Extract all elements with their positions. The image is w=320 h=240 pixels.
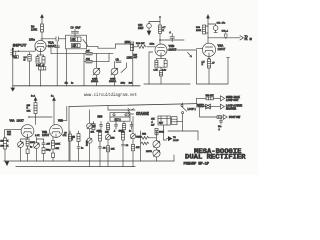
label 220p above bus bbox=[121, 83, 133, 85]
svg-text:LOOP: LOOP bbox=[173, 140, 179, 142]
wire bus jog mid bbox=[108, 106, 135, 110]
wire loop to divider bbox=[87, 46, 99, 48]
wire foot sw row bbox=[200, 108, 217, 117]
resistor R5 1.5K cathode bbox=[36, 55, 44, 63]
capacitor C74 bbox=[99, 147, 107, 167]
svg-text:V3A: V3A bbox=[10, 119, 15, 123]
ground bus bottom bbox=[4, 160, 174, 162]
resistor R58 drop bbox=[105, 122, 110, 134]
capacitor C1 bypass bbox=[38, 57, 46, 67]
capacitor C73 bbox=[77, 147, 84, 161]
svg-text:TO: TO bbox=[173, 137, 176, 139]
label V3B bbox=[58, 118, 63, 122]
svg-text:V1B: V1B bbox=[169, 44, 176, 48]
node B+2 junction bbox=[159, 16, 161, 25]
label R4 100K bbox=[31, 24, 37, 31]
wire V3A cathode down bbox=[27, 137, 29, 139]
svg-text:MID: MID bbox=[111, 137, 115, 139]
pot P5 bbox=[18, 139, 28, 161]
capacitor C4 drop bbox=[55, 41, 59, 86]
svg-text:500p: 500p bbox=[46, 150, 51, 152]
label R30 100K bbox=[196, 27, 202, 32]
title PREAMP NF-1P bbox=[184, 163, 210, 167]
svg-text:R23 68K: R23 68K bbox=[136, 43, 145, 45]
svg-text:K: K bbox=[7, 145, 9, 147]
resistor R24 cathode V1B bbox=[155, 59, 166, 68]
resistor R78 top bbox=[155, 128, 164, 134]
svg-text:3M3: 3M3 bbox=[142, 134, 147, 136]
label P2 GAIN 250K bbox=[109, 77, 117, 83]
svg-text:1n: 1n bbox=[71, 83, 74, 85]
label 1.5K 2.2uF bbox=[154, 70, 167, 72]
capacitor C7 small bbox=[116, 59, 122, 62]
label LOOP ACTIVE MASTER bbox=[226, 104, 242, 110]
svg-text:.47: .47 bbox=[212, 62, 216, 64]
tube V1A triode bbox=[35, 40, 46, 51]
label 47n above bus bbox=[65, 83, 75, 85]
label C8 .1 bbox=[64, 132, 75, 138]
wire V1B bottom rail bbox=[144, 83, 190, 85]
svg-text:DUAL RECTIFIER: DUAL RECTIFIER bbox=[185, 153, 246, 160]
svg-text:RLY A: RLY A bbox=[115, 118, 122, 121]
pot P6 bbox=[34, 137, 40, 161]
wire V3A grid to left rail bbox=[5, 130, 22, 138]
node B+3 arrow V2A bbox=[207, 15, 210, 43]
wire B+ feed right bbox=[208, 37, 238, 39]
resistor R8 in loop bbox=[72, 43, 81, 47]
pot P8 mid bbox=[105, 129, 110, 167]
svg-text:.02: .02 bbox=[103, 147, 107, 149]
wire bus drop left bbox=[68, 107, 70, 162]
label C3 47uF bbox=[71, 27, 81, 30]
svg-text:K: K bbox=[27, 108, 29, 110]
svg-text:47n: 47n bbox=[65, 83, 69, 85]
svg-text:INPUT: INPUT bbox=[13, 42, 27, 47]
svg-text:C8: C8 bbox=[64, 132, 68, 134]
capacitor C31 47uF bbox=[208, 24, 218, 33]
pot P10 master bbox=[153, 141, 160, 150]
capacitor C21 cathode V1B bbox=[156, 60, 167, 70]
tube V3B triode bbox=[50, 125, 63, 138]
ground bus second bbox=[16, 166, 135, 168]
resistor R22 stack bbox=[159, 25, 167, 33]
svg-text:10n: 10n bbox=[218, 126, 222, 128]
wire B+1 to V1A plate bbox=[41, 18, 43, 41]
label SEND JACK LOOP OUT bbox=[226, 96, 240, 102]
wire V3B anode to bus bbox=[62, 106, 67, 120]
svg-text:ORANGE: ORANGE bbox=[136, 111, 149, 116]
relay box K2 bbox=[158, 116, 170, 125]
arrow TO power amp bbox=[238, 36, 252, 42]
component X2 right of relay bbox=[172, 117, 177, 125]
label C31 47uF bbox=[217, 22, 226, 24]
title MESA-BOOGIE bbox=[194, 148, 242, 155]
pot P11 presence bbox=[153, 150, 160, 161]
svg-text:www.circuitdiagram.net: www.circuitdiagram.net bbox=[84, 93, 137, 98]
resistor R71 left stack bbox=[4, 137, 7, 161]
wire V1B cathode bbox=[160, 56, 162, 59]
label 1.5K .47 bbox=[36, 65, 45, 67]
capacitor C51 drop bbox=[114, 122, 118, 133]
capacitor C32 .1 on feed bbox=[222, 30, 229, 36]
svg-text:12AX7: 12AX7 bbox=[169, 47, 177, 51]
svg-text:FOOT SW: FOOT SW bbox=[229, 116, 241, 119]
watermark www.circuitdiagram.net bbox=[84, 93, 137, 98]
wire drop x140 bbox=[140, 131, 142, 161]
svg-text:C32 .1: C32 .1 bbox=[222, 30, 229, 32]
label 1.5K V2A bbox=[202, 61, 216, 66]
svg-text:150n: 150n bbox=[29, 38, 35, 42]
node B+4 arrow bbox=[31, 95, 37, 101]
svg-text:C3: C3 bbox=[71, 27, 75, 30]
svg-text:220p: 220p bbox=[121, 83, 126, 85]
svg-text:82K: 82K bbox=[7, 134, 11, 136]
svg-text:100K: 100K bbox=[31, 27, 37, 31]
wire jack sleeve to ground bbox=[12, 56, 14, 85]
wire V1A cathode down bbox=[40, 52, 42, 55]
svg-text:MSTR: MSTR bbox=[146, 151, 152, 153]
ground arrow bottom left bbox=[5, 162, 9, 166]
svg-text:LOOP OUT: LOOP OUT bbox=[226, 99, 239, 102]
wire L return top right bbox=[168, 131, 198, 140]
svg-text:47uF: 47uF bbox=[75, 27, 81, 30]
svg-text:1n: 1n bbox=[129, 131, 132, 133]
label V2A 12AX7 bbox=[218, 44, 226, 51]
svg-text:150K: 150K bbox=[125, 41, 131, 44]
resistor R2 1M grid leak bbox=[14, 51, 19, 59]
capacitor C23 .1 bbox=[169, 32, 174, 42]
label 100K 1n bbox=[30, 142, 35, 149]
label TREB bbox=[136, 136, 142, 149]
svg-text:.1: .1 bbox=[218, 129, 221, 131]
wire divider down bbox=[132, 44, 134, 86]
svg-text:10K: 10K bbox=[111, 148, 115, 150]
input jack J1 bbox=[11, 48, 14, 57]
tube V2A triode bbox=[202, 43, 215, 56]
svg-text:.1: .1 bbox=[114, 131, 117, 133]
svg-text:.1: .1 bbox=[151, 121, 154, 123]
wire V1A plate to loop bbox=[42, 38, 66, 40]
svg-text:12AX7: 12AX7 bbox=[17, 120, 25, 123]
pot P2 gain red bbox=[111, 62, 118, 86]
label C71 bbox=[63, 135, 68, 137]
svg-text:100: 100 bbox=[27, 105, 31, 107]
svg-text:PA: PA bbox=[245, 38, 248, 41]
svg-text:1.5K: 1.5K bbox=[154, 70, 159, 72]
wire step network bbox=[98, 44, 133, 48]
pot P3 small bbox=[87, 110, 93, 134]
svg-text:K: K bbox=[72, 139, 74, 141]
wire branch to C22 bbox=[149, 22, 160, 24]
svg-text:250K A: 250K A bbox=[91, 80, 99, 83]
svg-text:R30: R30 bbox=[196, 27, 201, 29]
label C22 10uF bbox=[138, 24, 144, 30]
wire send row bbox=[196, 98, 219, 103]
svg-text:MASTER: MASTER bbox=[226, 108, 236, 111]
resistor R73 stack right bbox=[52, 137, 55, 161]
wire B+5 to V3B plate bbox=[53, 101, 55, 125]
resistor R57 drop bbox=[91, 122, 96, 134]
svg-text:82K: 82K bbox=[27, 110, 31, 112]
resistor R76 250K bbox=[119, 130, 125, 144]
svg-text:12AX7: 12AX7 bbox=[218, 47, 226, 51]
label 220K 100K bbox=[0, 140, 9, 147]
arrow to FX bbox=[167, 137, 172, 141]
svg-text:22K: 22K bbox=[97, 131, 101, 133]
resistor R75 22K bbox=[97, 131, 102, 146]
ground bus main bbox=[13, 85, 140, 87]
svg-text:1.5: 1.5 bbox=[202, 61, 206, 63]
svg-text:22K: 22K bbox=[72, 46, 77, 48]
svg-text:PREAMP NF-1P: PREAMP NF-1P bbox=[184, 163, 210, 167]
resistor R60 send bbox=[206, 95, 215, 100]
wire jack to V1A grid bbox=[18, 48, 35, 52]
svg-text:100K: 100K bbox=[55, 143, 60, 145]
label 1.5K bottom bbox=[35, 135, 40, 137]
capacitor C50 drop bbox=[99, 122, 103, 133]
label P1 GAIN 250K bbox=[91, 77, 99, 83]
label 1M bbox=[93, 126, 96, 128]
label LOOP 1 bbox=[188, 109, 197, 111]
label BASS vertical bbox=[86, 140, 89, 146]
wire lower branch to junction bbox=[92, 54, 109, 62]
svg-text:47K: 47K bbox=[55, 148, 59, 150]
wire V2A cathode bbox=[208, 56, 210, 59]
svg-text:C9: C9 bbox=[126, 145, 130, 147]
svg-text:K: K bbox=[202, 64, 204, 66]
title DUAL RECTIFIER bbox=[185, 153, 246, 160]
bus orange channel bbox=[69, 104, 196, 107]
resistor R77 zigzag bbox=[141, 136, 149, 144]
svg-text:.047: .047 bbox=[46, 144, 51, 146]
svg-text:1n: 1n bbox=[30, 147, 33, 149]
resistor R23 68K zigzag bbox=[136, 43, 155, 48]
label FOOT SW bbox=[229, 116, 241, 119]
wire x163 drop bbox=[164, 125, 167, 140]
svg-text:120K: 120K bbox=[127, 57, 133, 60]
capacitor C5 .047 top branch bbox=[86, 51, 93, 55]
svg-text:RLY: RLY bbox=[159, 122, 164, 124]
label V1A 12AX7 bbox=[48, 41, 56, 48]
wire to V1B plate bbox=[159, 33, 161, 44]
label 100K 47K bbox=[55, 143, 60, 150]
tube V1B triode bbox=[155, 44, 167, 56]
capacitor C72 stack bbox=[37, 139, 46, 161]
relay box K1 bbox=[110, 113, 130, 122]
svg-text:2n2: 2n2 bbox=[129, 83, 133, 85]
wire bus end drop bbox=[173, 155, 175, 161]
label 3.3M bbox=[24, 57, 28, 62]
svg-text:10K: 10K bbox=[91, 132, 95, 134]
svg-text:47K: 47K bbox=[151, 118, 155, 120]
capacitor C2 on plate wire bbox=[56, 37, 58, 41]
wire grid loop V2A bbox=[196, 48, 229, 84]
resistor R59 drop bbox=[121, 122, 126, 134]
svg-text:RED: RED bbox=[197, 103, 205, 108]
wire jack to grid stopper bbox=[14, 50, 24, 52]
label TO LOOP bbox=[173, 137, 179, 142]
svg-text:B+4: B+4 bbox=[31, 95, 36, 97]
svg-text:22K: 22K bbox=[105, 132, 109, 134]
wire lower branch bbox=[84, 54, 86, 86]
label R30 82K bottom bbox=[7, 132, 12, 137]
label INPUT bbox=[13, 42, 27, 47]
capacitor C20 input V1B bbox=[130, 42, 137, 51]
resistor R74 stack bbox=[77, 131, 80, 146]
wire V1B anode to V2A grid bbox=[167, 49, 196, 51]
pot P7 bass bbox=[87, 134, 92, 167]
wire top branch to junction bbox=[92, 53, 109, 55]
label V1B 12AX7 bbox=[169, 44, 177, 51]
wire junction to gain pots bbox=[109, 54, 113, 58]
svg-text:250K: 250K bbox=[119, 130, 124, 132]
label 47K .1 stack bbox=[151, 118, 155, 126]
svg-text:47u: 47u bbox=[222, 22, 226, 24]
label 3M3 bbox=[142, 134, 147, 136]
switch lever S2 bbox=[188, 52, 192, 57]
capacitor C54 foot bbox=[218, 119, 222, 131]
resistor R72 stack bbox=[26, 139, 29, 161]
wire branch right y40 bbox=[160, 39, 184, 41]
svg-text:V2A: V2A bbox=[218, 44, 225, 48]
wire drop x70 components bbox=[69, 131, 72, 161]
pot P1 gain orange bbox=[93, 54, 100, 86]
svg-text:1M: 1M bbox=[14, 57, 17, 59]
wire pot wiper diagonal bbox=[121, 63, 127, 73]
svg-text:100K: 100K bbox=[196, 30, 202, 32]
label MASTER bbox=[146, 151, 152, 153]
wire pots feed bbox=[149, 131, 157, 141]
svg-text:250K A: 250K A bbox=[109, 80, 117, 83]
capacitor C3 bbox=[72, 29, 79, 35]
label V3A 12AX7 bbox=[10, 119, 25, 123]
node B+5 arrow bbox=[51, 95, 55, 101]
switch lever top mid bbox=[83, 40, 88, 46]
label ORANGE bbox=[136, 111, 149, 116]
svg-text:1n: 1n bbox=[81, 148, 84, 150]
arrow foot sw bbox=[222, 115, 228, 120]
resistor R3 node stack bbox=[28, 53, 31, 87]
svg-text:C71: C71 bbox=[63, 135, 68, 137]
svg-text:M: M bbox=[24, 60, 26, 62]
svg-text:K: K bbox=[7, 140, 9, 142]
resistor R7 in loop bbox=[71, 37, 82, 42]
svg-text:1.5K: 1.5K bbox=[35, 135, 40, 137]
svg-text:100n: 100n bbox=[150, 43, 156, 45]
svg-text:(.1): (.1) bbox=[116, 59, 120, 61]
resistor R61 foot bbox=[217, 116, 222, 119]
svg-text:10uF: 10uF bbox=[138, 27, 144, 30]
wire V1A anode coupling row bbox=[46, 46, 86, 54]
wire grid tie row3 bbox=[28, 116, 52, 118]
svg-text:GAIN: GAIN bbox=[110, 77, 116, 80]
svg-text:.047: .047 bbox=[133, 57, 138, 59]
pot P4 bracket bbox=[128, 109, 134, 117]
ground arrow symbol bbox=[11, 86, 15, 91]
label .047 bbox=[46, 144, 51, 152]
svg-text:4n7: 4n7 bbox=[151, 124, 155, 126]
wire orange bracket to treble bbox=[132, 116, 134, 131]
svg-text:4.7: 4.7 bbox=[162, 27, 166, 29]
capacitor C6 .022 lower branch bbox=[86, 59, 93, 63]
node B+1 arrow bbox=[41, 15, 44, 19]
capacitor C75 bbox=[122, 144, 129, 166]
arrow send jack bbox=[219, 96, 225, 101]
label node 150v bbox=[29, 38, 42, 42]
resistor R31 cathode stack bbox=[207, 59, 210, 84]
svg-text:GAIN: GAIN bbox=[92, 77, 98, 80]
resistor R30 stack V2A plate bbox=[203, 25, 208, 34]
svg-text:R60 47K: R60 47K bbox=[206, 95, 215, 97]
svg-text:47K: 47K bbox=[136, 147, 140, 149]
svg-text:R56: R56 bbox=[98, 115, 103, 119]
wire left drop x149 bbox=[149, 52, 153, 84]
diode D1 pair bbox=[204, 104, 221, 109]
wire decoupling loop bbox=[66, 35, 87, 86]
switch S3 channel bbox=[181, 103, 187, 117]
resistor R40 stack below arrow bbox=[34, 101, 37, 125]
arrow loop active bbox=[220, 104, 224, 109]
capacitor C52 drop bbox=[129, 122, 133, 133]
svg-text:.1: .1 bbox=[169, 32, 172, 34]
label 100n bbox=[150, 43, 156, 45]
pot P9 treble bbox=[130, 131, 135, 167]
svg-text:V1A: V1A bbox=[48, 41, 55, 45]
label V3B 12AX7 mid bbox=[42, 130, 50, 137]
svg-text:TO: TO bbox=[245, 36, 248, 38]
svg-text:LOOP 1: LOOP 1 bbox=[188, 109, 197, 111]
label B56 bbox=[98, 115, 103, 119]
label 120K lower bbox=[127, 57, 133, 60]
svg-text:K: K bbox=[162, 30, 164, 32]
ground arrow at C22 bbox=[147, 31, 151, 35]
tube V3A triode bbox=[21, 125, 34, 138]
label RED bbox=[197, 103, 205, 108]
capacitor C22 10uF electrolytic bbox=[147, 24, 152, 31]
svg-text:IN: IN bbox=[250, 39, 253, 41]
svg-text:15K: 15K bbox=[71, 39, 76, 42]
label 220K bbox=[72, 136, 76, 141]
resistor R6 lower cathode bbox=[39, 67, 46, 86]
resistor R25 tail bbox=[159, 71, 162, 84]
label MID 10K bbox=[111, 137, 115, 150]
wire switch to relay bbox=[177, 117, 183, 131]
resistor R4 100K plate load V1A bbox=[41, 24, 44, 32]
label 150K bbox=[125, 41, 131, 44]
label R40 100K bbox=[27, 105, 31, 113]
svg-text:12AX7: 12AX7 bbox=[42, 134, 50, 137]
label C20 .047 bbox=[133, 55, 138, 60]
